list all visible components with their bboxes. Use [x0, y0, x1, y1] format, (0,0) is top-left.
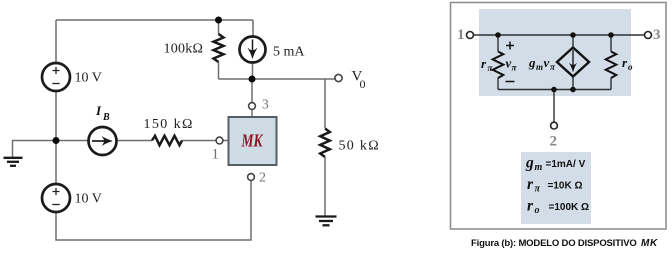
svg-text:r: r: [527, 198, 534, 215]
svg-text:1: 1: [457, 27, 465, 43]
svg-text:10 V: 10 V: [75, 71, 102, 86]
svg-text:o: o: [535, 205, 540, 216]
svg-text:100kΩ: 100kΩ: [164, 42, 204, 57]
svg-text:5 mA: 5 mA: [273, 45, 305, 60]
svg-text:50 kΩ: 50 kΩ: [339, 139, 380, 154]
svg-text:I: I: [95, 103, 102, 118]
svg-text:m: m: [536, 62, 543, 72]
svg-text:=100K Ω: =100K Ω: [549, 202, 590, 213]
svg-text:3: 3: [653, 27, 661, 43]
svg-text:MK: MK: [241, 131, 264, 151]
svg-text:150 kΩ: 150 kΩ: [144, 117, 194, 132]
svg-text:2: 2: [550, 134, 558, 150]
svg-text:Figura (b): MODELO DO DISPOSIT: Figura (b): MODELO DO DISPOSITIVO: [471, 238, 637, 249]
svg-text:2: 2: [259, 171, 266, 186]
svg-text:=10K Ω: =10K Ω: [548, 181, 583, 192]
svg-text:B: B: [102, 112, 110, 123]
svg-text:3: 3: [262, 97, 269, 112]
svg-text:g: g: [528, 55, 536, 70]
svg-text:v: v: [544, 55, 550, 70]
svg-text:MK: MK: [641, 238, 658, 249]
svg-text:1: 1: [212, 147, 220, 163]
svg-text:g: g: [525, 155, 534, 172]
svg-text:r: r: [527, 176, 534, 193]
svg-text:o: o: [628, 62, 633, 72]
svg-text:10 V: 10 V: [75, 192, 102, 207]
svg-text:m: m: [535, 162, 543, 173]
svg-text:π: π: [535, 184, 541, 195]
svg-text:=1mA/ V: =1mA/ V: [546, 159, 586, 170]
svg-text:0: 0: [360, 77, 366, 91]
